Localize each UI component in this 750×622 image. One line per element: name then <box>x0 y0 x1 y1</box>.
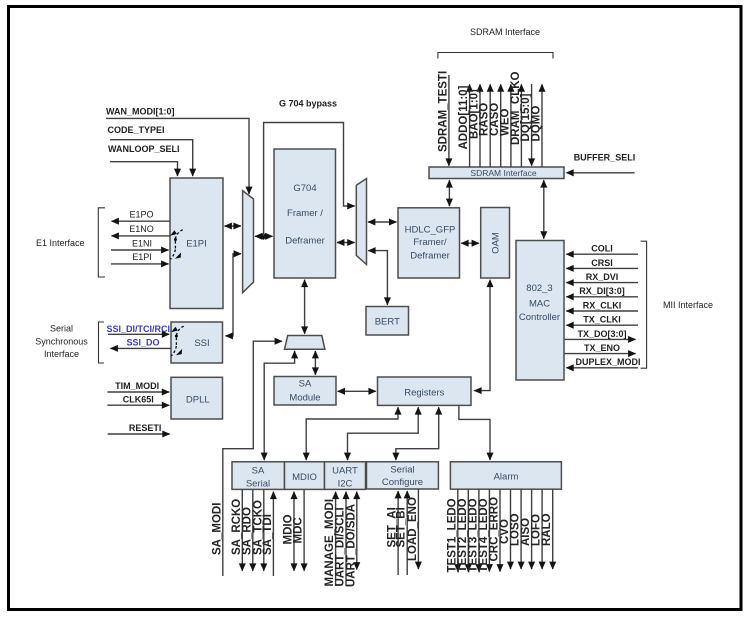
svg-text:Serial: Serial <box>50 324 73 334</box>
svg-text:E1NO: E1NO <box>129 224 154 234</box>
svg-text:SDRAM_TESTI: SDRAM_TESTI <box>437 71 449 152</box>
svg-text:TX_DO[3:0]: TX_DO[3:0] <box>577 329 626 339</box>
svg-text:TX_CLKI: TX_CLKI <box>583 315 621 325</box>
svg-text:UART_DO/SDA: UART_DO/SDA <box>345 504 357 587</box>
svg-text:Framer /: Framer / <box>287 208 323 219</box>
svg-text:DPLL: DPLL <box>186 395 210 406</box>
svg-text:DQMO: DQMO <box>531 106 543 142</box>
svg-text:MDIO: MDIO <box>292 472 317 483</box>
svg-text:SA: SA <box>299 379 312 390</box>
svg-text:Module: Module <box>289 393 320 404</box>
svg-text:E1PO: E1PO <box>129 210 153 220</box>
svg-text:SDRAM Interface: SDRAM Interface <box>470 168 536 178</box>
svg-text:RX_DVI: RX_DVI <box>586 272 619 282</box>
svg-text:G 704 bypass: G 704 bypass <box>279 99 337 109</box>
svg-text:SET_BI: SET_BI <box>396 507 408 547</box>
svg-text:802_3: 802_3 <box>526 283 552 294</box>
svg-text:Alarm: Alarm <box>494 472 519 483</box>
svg-text:COLI: COLI <box>591 244 613 254</box>
svg-text:LOAD_ENO: LOAD_ENO <box>407 497 419 561</box>
svg-text:MII Interface: MII Interface <box>663 300 713 310</box>
svg-text:Synchronous: Synchronous <box>35 336 88 346</box>
svg-text:UART: UART <box>332 466 358 477</box>
svg-text:CLK65I: CLK65I <box>123 394 154 404</box>
svg-text:E1PI: E1PI <box>186 238 207 249</box>
svg-text:SSI: SSI <box>194 338 209 349</box>
svg-text:CRSI: CRSI <box>591 258 613 268</box>
svg-text:Serial: Serial <box>246 479 270 490</box>
svg-text:Registers: Registers <box>404 388 444 399</box>
svg-text:TX_ENO: TX_ENO <box>584 343 620 353</box>
svg-text:I2C: I2C <box>338 479 353 490</box>
svg-text:RX_CLKI: RX_CLKI <box>583 300 622 310</box>
svg-text:SSI_DI/TCI/RCI: SSI_DI/TCI/RCI <box>107 324 171 334</box>
svg-text:SDRAM Interface: SDRAM Interface <box>470 27 540 37</box>
svg-text:RX_DI[3:0]: RX_DI[3:0] <box>579 286 625 296</box>
svg-text:SA_TDI: SA_TDI <box>262 514 274 555</box>
svg-text:E1 Interface: E1 Interface <box>36 238 85 248</box>
svg-text:MAC: MAC <box>529 299 550 310</box>
svg-text:Controller: Controller <box>519 312 560 323</box>
svg-text:BERT: BERT <box>375 316 400 327</box>
svg-text:MDC: MDC <box>293 517 305 543</box>
svg-text:DUPLEX_MODI: DUPLEX_MODI <box>575 357 640 367</box>
svg-text:Framer/: Framer/ <box>413 237 447 248</box>
svg-text:RESETI: RESETI <box>129 423 162 433</box>
svg-text:BUFFER_SELI: BUFFER_SELI <box>574 152 636 162</box>
svg-text:G704: G704 <box>293 183 316 194</box>
svg-text:HDLC_GFP: HDLC_GFP <box>405 225 456 236</box>
svg-text:Deframer: Deframer <box>285 236 325 247</box>
svg-text:Configure: Configure <box>382 477 423 488</box>
svg-text:WAN_MODI[1:0]: WAN_MODI[1:0] <box>106 107 175 117</box>
svg-text:RALO: RALO <box>541 513 553 546</box>
svg-text:CODE_TYPEI: CODE_TYPEI <box>108 125 165 135</box>
svg-text:Deframer: Deframer <box>410 250 450 261</box>
svg-text:Interface: Interface <box>44 349 79 359</box>
svg-text:OAM: OAM <box>491 232 502 254</box>
svg-text:E1NI: E1NI <box>132 238 152 248</box>
svg-text:SA_MODI: SA_MODI <box>212 503 224 555</box>
svg-text:WANLOOP_SELI: WANLOOP_SELI <box>108 144 180 154</box>
svg-text:Serial: Serial <box>390 465 414 476</box>
svg-text:SSI_DO: SSI_DO <box>126 338 159 348</box>
svg-text:SA: SA <box>252 466 265 477</box>
svg-text:TIM_MODI: TIM_MODI <box>115 381 159 391</box>
svg-text:E1PI: E1PI <box>132 252 152 262</box>
